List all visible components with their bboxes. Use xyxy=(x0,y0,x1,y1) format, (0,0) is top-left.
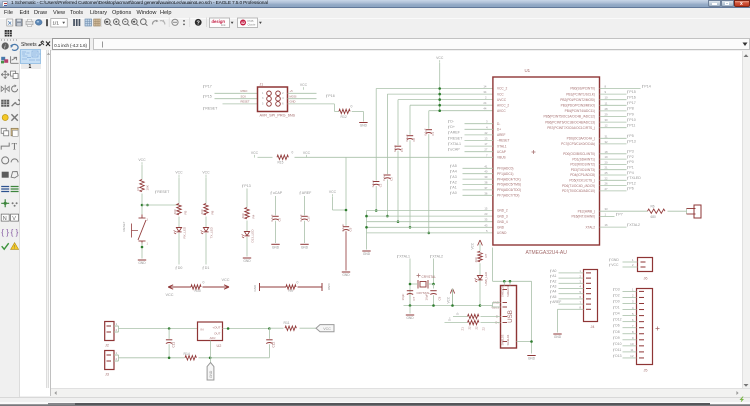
svg-text:PB6(PCINT6/OC1B/OC4B/ADC13): PB6(PCINT6/OC1B/OC4B/ADC13) xyxy=(545,120,595,124)
svg-text:R14: R14 xyxy=(183,352,189,356)
svg-text:6: 6 xyxy=(282,102,284,105)
svg-text:GND: GND xyxy=(271,245,279,249)
svg-text:R2: R2 xyxy=(136,186,140,190)
svg-text:Quote: Quote xyxy=(248,22,256,26)
svg-text:GND: GND xyxy=(327,283,331,291)
svg-text:MOSI: MOSI xyxy=(289,94,296,98)
svg-text:PB1(PCINT1/SCLK): PB1(PCINT1/SCLK) xyxy=(566,92,595,96)
svg-text:MISO: MISO xyxy=(240,89,247,93)
svg-text:TXLED: TXLED xyxy=(629,176,641,180)
svg-text:P1: P1 xyxy=(629,165,633,169)
svg-text:VBUS: VBUS xyxy=(497,155,506,159)
svg-text:RESET: RESET xyxy=(205,106,218,110)
svg-text:~RESET: ~RESET xyxy=(497,138,510,142)
svg-text:GND: GND xyxy=(362,252,370,256)
svg-text:7: 7 xyxy=(631,323,633,327)
svg-text:PE6(INT.6/AIN0): PE6(INT.6/AIN0) xyxy=(571,214,595,218)
svg-text:4: 4 xyxy=(282,97,284,100)
svg-text:499: 499 xyxy=(173,209,177,214)
svg-text:D10: D10 xyxy=(615,341,621,345)
svg-text:22: 22 xyxy=(604,176,608,180)
svg-text:GND: GND xyxy=(406,316,414,320)
svg-text:35: 35 xyxy=(484,217,488,221)
svg-text:2: 2 xyxy=(115,356,117,360)
svg-text:IN: IN xyxy=(200,327,203,331)
svg-text:10: 10 xyxy=(630,342,634,346)
svg-text:AVR_SPI_PRG_6NS: AVR_SPI_PRG_6NS xyxy=(259,113,295,117)
svg-text:C1: C1 xyxy=(431,131,435,135)
svg-text:P13: P13 xyxy=(629,139,635,143)
svg-text:D+: D+ xyxy=(450,125,455,129)
svg-text:GND: GND xyxy=(243,259,251,263)
svg-text:VCC: VCC xyxy=(328,190,336,194)
svg-text:R15: R15 xyxy=(277,160,283,164)
svg-text:9: 9 xyxy=(604,90,606,94)
svg-text:17: 17 xyxy=(484,142,488,146)
svg-text:10K: 10K xyxy=(145,185,149,190)
svg-text:P2: P2 xyxy=(629,154,633,158)
svg-text:34: 34 xyxy=(483,90,487,94)
svg-text:VCC: VCC xyxy=(221,278,229,282)
svg-text:39: 39 xyxy=(484,175,488,179)
svg-text:R6: R6 xyxy=(650,204,654,208)
svg-text:31: 31 xyxy=(604,134,608,138)
svg-text:uCAP: uCAP xyxy=(272,191,282,195)
svg-text:44: 44 xyxy=(483,106,487,110)
svg-text:VCC: VCC xyxy=(202,170,210,174)
svg-text:XTAL2: XTAL2 xyxy=(629,222,640,226)
svg-text:UVCC: UVCC xyxy=(497,97,507,101)
svg-text:SHIELD4: SHIELD4 xyxy=(506,334,510,345)
svg-text:A5: A5 xyxy=(452,164,456,168)
svg-text:J4: J4 xyxy=(590,325,594,329)
svg-text:3: 3 xyxy=(262,97,264,100)
svg-text:0: 0 xyxy=(291,150,293,154)
svg-text:A2: A2 xyxy=(552,279,556,283)
svg-text:1: 1 xyxy=(115,350,117,354)
svg-text:C2: C2 xyxy=(378,183,382,187)
svg-text:1: 1 xyxy=(146,242,148,245)
svg-text:PD6(OC3A/OC4A_): PD6(OC3A/OC4A_) xyxy=(566,136,594,140)
svg-text:P15: P15 xyxy=(629,89,635,93)
svg-text:10: 10 xyxy=(604,95,608,99)
svg-text:1: 1 xyxy=(115,321,117,325)
svg-text:SHIELD3: SHIELD3 xyxy=(500,334,504,345)
svg-text:1/1: 1/1 xyxy=(53,21,60,26)
svg-text:16pF: 16pF xyxy=(400,293,404,300)
svg-text:3: 3 xyxy=(485,119,487,123)
svg-text:U1: U1 xyxy=(524,68,530,73)
svg-text:22: 22 xyxy=(467,325,471,329)
svg-text:C4: C4 xyxy=(400,147,404,151)
svg-text:R8: R8 xyxy=(210,210,214,214)
svg-text:PD4(ICP1/ADC8): PD4(ICP1/ADC8) xyxy=(570,173,595,177)
svg-text:C11: C11 xyxy=(171,341,175,347)
svg-text:14: 14 xyxy=(483,84,487,88)
svg-text:XTAL1: XTAL1 xyxy=(450,141,461,145)
svg-text:C6: C6 xyxy=(412,137,416,141)
svg-text:RESET: RESET xyxy=(157,190,170,194)
svg-text:GND: GND xyxy=(527,356,535,360)
svg-text:uCAP: uCAP xyxy=(450,147,460,151)
svg-text:P8: P8 xyxy=(629,106,633,110)
svg-text:R4: R4 xyxy=(251,214,255,218)
svg-text:12: 12 xyxy=(604,123,608,127)
svg-text:C3: C3 xyxy=(389,176,393,180)
svg-text:PD6(T1/OC4D_/ADC9): PD6(T1/OC4D_/ADC9) xyxy=(562,183,595,187)
svg-text:U2: U2 xyxy=(216,344,221,348)
svg-text:GND: GND xyxy=(208,370,212,378)
svg-text:AREF: AREF xyxy=(301,191,311,195)
svg-text:P12: P12 xyxy=(629,181,635,185)
svg-text:A3: A3 xyxy=(452,174,456,178)
svg-text:VCC: VCC xyxy=(470,242,474,249)
svg-text:P13: P13 xyxy=(244,184,250,188)
svg-text:18: 18 xyxy=(604,149,608,153)
svg-text:link: link xyxy=(221,23,226,27)
svg-text:{: { xyxy=(11,228,14,237)
svg-text:PC7(ICP3/CLK0/OC4A): PC7(ICP3/CLK0/OC4A) xyxy=(561,142,595,146)
svg-text:USB: USB xyxy=(507,310,514,323)
svg-text:C5: C5 xyxy=(277,217,281,221)
svg-text:P0: P0 xyxy=(629,160,633,164)
svg-text:PD0(OC0B/SCL/INT0): PD0(OC0B/SCL/INT0) xyxy=(563,152,595,156)
svg-text:R12: R12 xyxy=(340,115,346,119)
svg-text:VCC: VCC xyxy=(138,158,146,162)
svg-text:29: 29 xyxy=(604,112,608,116)
svg-text:R5: R5 xyxy=(183,210,187,214)
svg-text:P17: P17 xyxy=(629,101,635,105)
svg-text:PB0(SS/PCINT0): PB0(SS/PCINT0) xyxy=(570,86,595,90)
svg-text:GND_2: GND_2 xyxy=(497,208,508,212)
svg-text:GND: GND xyxy=(300,245,308,249)
svg-text:A0: A0 xyxy=(452,191,456,195)
svg-text:RESET: RESET xyxy=(450,136,463,140)
svg-text:!: ! xyxy=(14,245,15,251)
svg-text:0.1uF: 0.1uF xyxy=(371,179,375,186)
svg-text:D+: D+ xyxy=(497,127,501,131)
svg-text:P14: P14 xyxy=(644,84,650,88)
svg-text:A4: A4 xyxy=(552,289,556,293)
svg-text:15: 15 xyxy=(484,206,488,210)
svg-text:40: 40 xyxy=(484,169,488,173)
svg-text:499: 499 xyxy=(200,209,204,214)
svg-text:J1: J1 xyxy=(259,82,263,86)
svg-text:21: 21 xyxy=(604,165,608,169)
svg-text:D-: D- xyxy=(497,121,500,125)
svg-text:2: 2 xyxy=(282,91,284,94)
svg-text:GND: GND xyxy=(253,284,257,292)
svg-text:D11: D11 xyxy=(615,347,621,351)
svg-text:41: 41 xyxy=(484,164,488,168)
svg-text:TX_LED: TX_LED xyxy=(209,226,213,238)
svg-text:R9: R9 xyxy=(288,289,292,293)
svg-text:VCC: VCC xyxy=(497,92,504,96)
svg-text:RESET: RESET xyxy=(122,221,126,231)
svg-text:7: 7 xyxy=(485,153,487,157)
svg-text:RX_LED: RX_LED xyxy=(182,225,186,238)
svg-text:V: V xyxy=(12,216,16,222)
svg-text:4: 4 xyxy=(485,125,487,129)
svg-text:37: 37 xyxy=(484,185,488,189)
svg-text:3: 3 xyxy=(146,218,148,221)
svg-text:A5: A5 xyxy=(552,294,556,298)
svg-text:43: 43 xyxy=(484,223,488,227)
svg-text:499: 499 xyxy=(241,213,245,218)
svg-text:C7: C7 xyxy=(412,296,416,300)
svg-text:11: 11 xyxy=(604,101,607,105)
svg-text:PF1(ADC1): PF1(ADC1) xyxy=(497,171,513,175)
svg-text:UCAP: UCAP xyxy=(497,149,506,153)
svg-text:AREF: AREF xyxy=(552,300,561,304)
svg-text:38: 38 xyxy=(484,180,488,184)
svg-text:GND: GND xyxy=(289,99,295,103)
svg-text:VCC: VCC xyxy=(436,56,444,60)
svg-text:42: 42 xyxy=(241,21,245,25)
svg-text:D0: D0 xyxy=(177,266,182,270)
svg-text:J3: J3 xyxy=(105,372,109,376)
svg-text:PD1(SDA/INT1): PD1(SDA/INT1) xyxy=(572,157,595,161)
svg-text:D1: D1 xyxy=(204,266,209,270)
svg-text:SHIELD2: SHIELD2 xyxy=(500,285,504,296)
svg-text:XTAL2: XTAL2 xyxy=(432,254,443,258)
svg-text:5: 5 xyxy=(485,228,487,232)
svg-text:XTAL2: XTAL2 xyxy=(585,225,595,229)
svg-text:P15: P15 xyxy=(205,94,211,98)
svg-text:P7: P7 xyxy=(618,212,622,216)
svg-text:D-: D- xyxy=(450,119,455,123)
svg-text:P17: P17 xyxy=(205,84,211,88)
svg-text:P10: P10 xyxy=(629,117,635,121)
svg-text:J2: J2 xyxy=(105,343,109,347)
svg-text:Z1: Z1 xyxy=(460,326,464,330)
svg-text:27: 27 xyxy=(604,186,608,190)
svg-text:PB2(PDI/PCINT2/MOSI): PB2(PDI/PCINT2/MOSI) xyxy=(560,97,595,101)
svg-text:D6: D6 xyxy=(615,323,619,327)
svg-text:16: 16 xyxy=(604,223,608,227)
svg-text:SHIELD1: SHIELD1 xyxy=(506,285,510,296)
svg-text:A4: A4 xyxy=(452,169,456,173)
svg-text:16pF: 16pF xyxy=(424,293,428,300)
svg-text:GND: GND xyxy=(138,261,146,265)
svg-text:P16: P16 xyxy=(629,95,635,99)
svg-text:D13_LED: D13_LED xyxy=(250,228,254,242)
svg-text:5: 5 xyxy=(262,102,264,105)
svg-text:1: 1 xyxy=(604,212,606,216)
svg-text:OUT: OUT xyxy=(214,331,221,335)
svg-text:P11: P11 xyxy=(629,123,635,127)
svg-text:GND_3: GND_3 xyxy=(497,214,508,218)
svg-text:0.1uF: 0.1uF xyxy=(270,214,274,221)
svg-text:ATMEGA32U4-AU: ATMEGA32U4-AU xyxy=(525,250,567,256)
svg-text:PB5(PCINT5/OC1A/OC4B_/ADC12): PB5(PCINT5/OC1A/OC4B_/ADC12) xyxy=(543,114,595,118)
svg-text:P5: P5 xyxy=(629,134,633,138)
svg-text:12: 12 xyxy=(630,354,634,358)
svg-text:VCC: VCC xyxy=(175,170,183,174)
svg-text:24: 24 xyxy=(483,101,487,105)
svg-text:0: 0 xyxy=(202,280,204,284)
svg-text:PB4(PCINT4/ADC11): PB4(PCINT4/ADC11) xyxy=(564,109,594,113)
svg-text:PB3(PDO/PCIN3/MISO): PB3(PDO/PCIN3/MISO) xyxy=(560,103,594,107)
svg-text:0.1uF: 0.1uF xyxy=(404,134,408,141)
svg-text:C12: C12 xyxy=(271,341,275,347)
svg-text:D1: D1 xyxy=(615,305,619,309)
svg-text:36: 36 xyxy=(484,191,488,195)
svg-text:25: 25 xyxy=(604,171,608,175)
svg-text:22: 22 xyxy=(474,325,478,329)
svg-text:2: 2 xyxy=(484,95,486,99)
svg-text:1: 1 xyxy=(631,258,633,262)
svg-text:R10: R10 xyxy=(194,289,200,293)
svg-text:}: } xyxy=(6,228,9,237)
svg-text:VCC: VCC xyxy=(165,293,173,297)
svg-text:+5: +5 xyxy=(289,89,293,93)
svg-text:D4: D4 xyxy=(615,311,619,315)
svg-text:J5: J5 xyxy=(643,368,647,372)
svg-text:}: } xyxy=(16,228,19,237)
svg-text:AREF: AREF xyxy=(497,133,506,137)
svg-text:11: 11 xyxy=(630,348,633,352)
svg-text:D+: D+ xyxy=(447,316,451,320)
svg-text:PF4(ADC4/TCK): PF4(ADC4/TCK) xyxy=(497,177,521,181)
svg-text:A1: A1 xyxy=(452,185,456,189)
svg-text:0.1uF: 0.1uF xyxy=(340,223,344,231)
svg-text:5: 5 xyxy=(631,311,633,315)
svg-text:2: 2 xyxy=(631,293,633,297)
svg-text:D3: D3 xyxy=(615,287,619,291)
svg-text:PF6(ADC6/TDO): PF6(ADC6/TDO) xyxy=(497,188,521,192)
svg-text:GND_4: GND_4 xyxy=(497,219,508,223)
svg-text:XTAL1: XTAL1 xyxy=(497,144,507,148)
svg-text:GND: GND xyxy=(342,273,350,277)
svg-text:VCC_2: VCC_2 xyxy=(497,86,508,90)
svg-text:VCC: VCC xyxy=(323,327,331,331)
svg-text:VCC: VCC xyxy=(446,296,450,303)
svg-text:PD7(T0/OC4D/ADC10): PD7(T0/OC4D/ADC10) xyxy=(562,189,595,193)
svg-text:GND: GND xyxy=(553,335,561,339)
svg-text:AVCC: AVCC xyxy=(497,108,506,112)
svg-text:AVCC_2: AVCC_2 xyxy=(497,103,509,107)
svg-text:T: T xyxy=(12,142,18,152)
svg-text:RESET: RESET xyxy=(240,99,249,103)
svg-text:SCK: SCK xyxy=(240,94,246,98)
svg-text:J6: J6 xyxy=(643,276,647,280)
svg-text:P6: P6 xyxy=(629,186,633,190)
svg-text:7: 7 xyxy=(579,300,581,304)
svg-text:0: 0 xyxy=(350,104,352,108)
svg-text:D-: D- xyxy=(455,311,459,314)
svg-text:PE2(HWB_): PE2(HWB_) xyxy=(577,209,594,213)
svg-text:0: 0 xyxy=(296,280,298,284)
svg-text:+OUT: +OUT xyxy=(212,325,220,329)
svg-text:2: 2 xyxy=(115,327,117,331)
svg-text:P9: P9 xyxy=(629,112,633,116)
svg-text:AREF: AREF xyxy=(450,130,460,134)
svg-text:PF7(ADC7/TDI): PF7(ADC7/TDI) xyxy=(497,193,520,197)
svg-text:USB_LED: USB_LED xyxy=(483,270,487,285)
svg-text:32: 32 xyxy=(604,139,608,143)
svg-text:P16: P16 xyxy=(328,94,334,98)
svg-text:A2: A2 xyxy=(452,180,456,184)
svg-text:PB7(PCINT7/OC0A/OC1C/RTS_): PB7(PCINT7/OC0A/OC1C/RTS_) xyxy=(547,125,595,129)
svg-text:8: 8 xyxy=(604,84,606,88)
svg-text:D12: D12 xyxy=(615,317,621,321)
svg-text:ADJ: ADJ xyxy=(209,336,215,340)
svg-text:28: 28 xyxy=(604,106,608,110)
svg-text:PD2(RXD1/INT2): PD2(RXD1/INT2) xyxy=(570,162,595,166)
svg-text:CRYSTAL: CRYSTAL xyxy=(421,275,436,279)
svg-text:20: 20 xyxy=(604,160,608,164)
svg-text:XTAL1: XTAL1 xyxy=(399,254,410,258)
svg-text:5: 5 xyxy=(579,289,581,293)
svg-text:27: 27 xyxy=(484,147,488,151)
svg-text:D13: D13 xyxy=(615,353,621,357)
svg-text:VCC: VCC xyxy=(299,83,307,87)
svg-text:0.1uF: 0.1uF xyxy=(392,144,396,151)
svg-text:VCC: VCC xyxy=(611,263,619,267)
svg-text:A1: A1 xyxy=(552,274,556,278)
svg-text:VCC: VCC xyxy=(250,150,258,154)
svg-text:PD3(TXD1/INT3): PD3(TXD1/INT3) xyxy=(570,167,594,171)
svg-text:GND: GND xyxy=(497,225,505,229)
svg-text:D8: D8 xyxy=(615,329,619,333)
svg-text:D2: D2 xyxy=(615,293,619,297)
svg-text:GND: GND xyxy=(611,257,619,261)
svg-text:30: 30 xyxy=(604,118,608,122)
svg-text:UGND: UGND xyxy=(497,231,507,235)
svg-text:C9: C9 xyxy=(348,227,352,231)
svg-text:P4: P4 xyxy=(629,170,633,174)
svg-text:R11: R11 xyxy=(283,321,289,325)
svg-text:0.1uF: 0.1uF xyxy=(382,173,386,180)
svg-text:C8: C8 xyxy=(437,296,441,300)
svg-text:C10: C10 xyxy=(306,215,310,221)
svg-text:23: 23 xyxy=(484,212,488,216)
svg-text:{: { xyxy=(1,228,4,237)
svg-text:19: 19 xyxy=(604,155,608,159)
svg-text:33: 33 xyxy=(604,207,608,211)
svg-text:VCC: VCC xyxy=(302,150,310,154)
svg-text:D9: D9 xyxy=(615,335,619,339)
svg-text:680: 680 xyxy=(650,215,656,219)
svg-text:0.1uF: 0.1uF xyxy=(423,128,427,135)
svg-text:D0: D0 xyxy=(615,299,619,303)
svg-text:2: 2 xyxy=(579,274,581,278)
svg-text:1: 1 xyxy=(262,91,264,94)
svg-text:PD5(XCK1/CTS_): PD5(XCK1/CTS_) xyxy=(569,178,595,182)
svg-text:PF0(ADC0): PF0(ADC0) xyxy=(497,166,513,170)
svg-text:P3: P3 xyxy=(629,149,633,153)
svg-text:42: 42 xyxy=(484,130,488,134)
svg-text:26: 26 xyxy=(604,181,608,185)
svg-text:PF5(ADC5/TMS): PF5(ADC5/TMS) xyxy=(497,182,521,186)
svg-text:A0: A0 xyxy=(552,268,556,272)
svg-text:499: 499 xyxy=(473,257,477,262)
svg-text:N: N xyxy=(3,216,7,222)
svg-text:0.1uF: 0.1uF xyxy=(299,214,303,221)
svg-text:GND: GND xyxy=(359,123,367,127)
svg-text:13: 13 xyxy=(484,136,488,140)
svg-text:Z2: Z2 xyxy=(481,326,485,330)
svg-text:R7: R7 xyxy=(484,253,488,257)
svg-text:A3: A3 xyxy=(552,284,556,288)
